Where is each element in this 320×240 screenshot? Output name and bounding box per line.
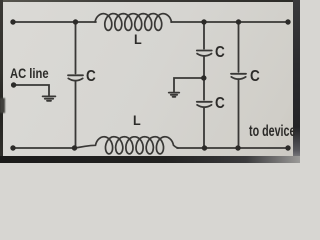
wire C2-C3 link (203, 56, 205, 100)
label C4 (250, 69, 260, 84)
wire middle ground stub (174, 78, 204, 92)
ground GND2 (middle) (169, 92, 179, 94)
capacitor C2 plates (upper middle) (197, 50, 212, 52)
inductor L2 (bottom coil) (75, 137, 178, 154)
capacitor C1 plates (68, 74, 83, 76)
wire C2 upper lead (203, 22, 205, 49)
wire bottom rail left segment (13, 147, 76, 149)
node top C1 (73, 19, 78, 24)
node AC earth terminal (11, 82, 16, 87)
node bottom-left terminal (10, 145, 15, 150)
wire C1 lower lead (75, 81, 77, 148)
label C2 (215, 45, 225, 60)
node top C4 (236, 19, 241, 24)
ground GND1 (left) (43, 95, 56, 97)
node bottom C4 (235, 145, 240, 150)
inductor L1 (top coil) (95, 14, 172, 31)
wire C1 upper lead (75, 22, 77, 74)
label to device (249, 124, 295, 139)
node top-right terminal (285, 19, 290, 24)
node bottom C1 (72, 145, 77, 150)
wire C4 lower lead (238, 79, 240, 148)
label L top (134, 32, 142, 46)
wire bottom rail right segment (177, 147, 288, 149)
wire C3 lower lead (203, 108, 205, 149)
wire top rail right segment (171, 21, 288, 23)
node top-left terminal (10, 19, 15, 24)
wire C4 upper lead (238, 22, 240, 72)
label L bottom (133, 113, 141, 127)
capacitor C3 plates (lower middle) (197, 101, 212, 103)
capacitor C4 plates (231, 73, 246, 75)
wire top rail left segment (13, 21, 96, 23)
label C1 (86, 69, 96, 84)
label AC line (10, 66, 49, 80)
node C2/C3 junction (201, 75, 206, 80)
node bottom C3 (202, 145, 207, 150)
node top C2 (201, 19, 206, 24)
node bottom-right terminal (285, 145, 290, 150)
wire AC earth stub (14, 85, 49, 96)
label C3 (215, 96, 225, 111)
